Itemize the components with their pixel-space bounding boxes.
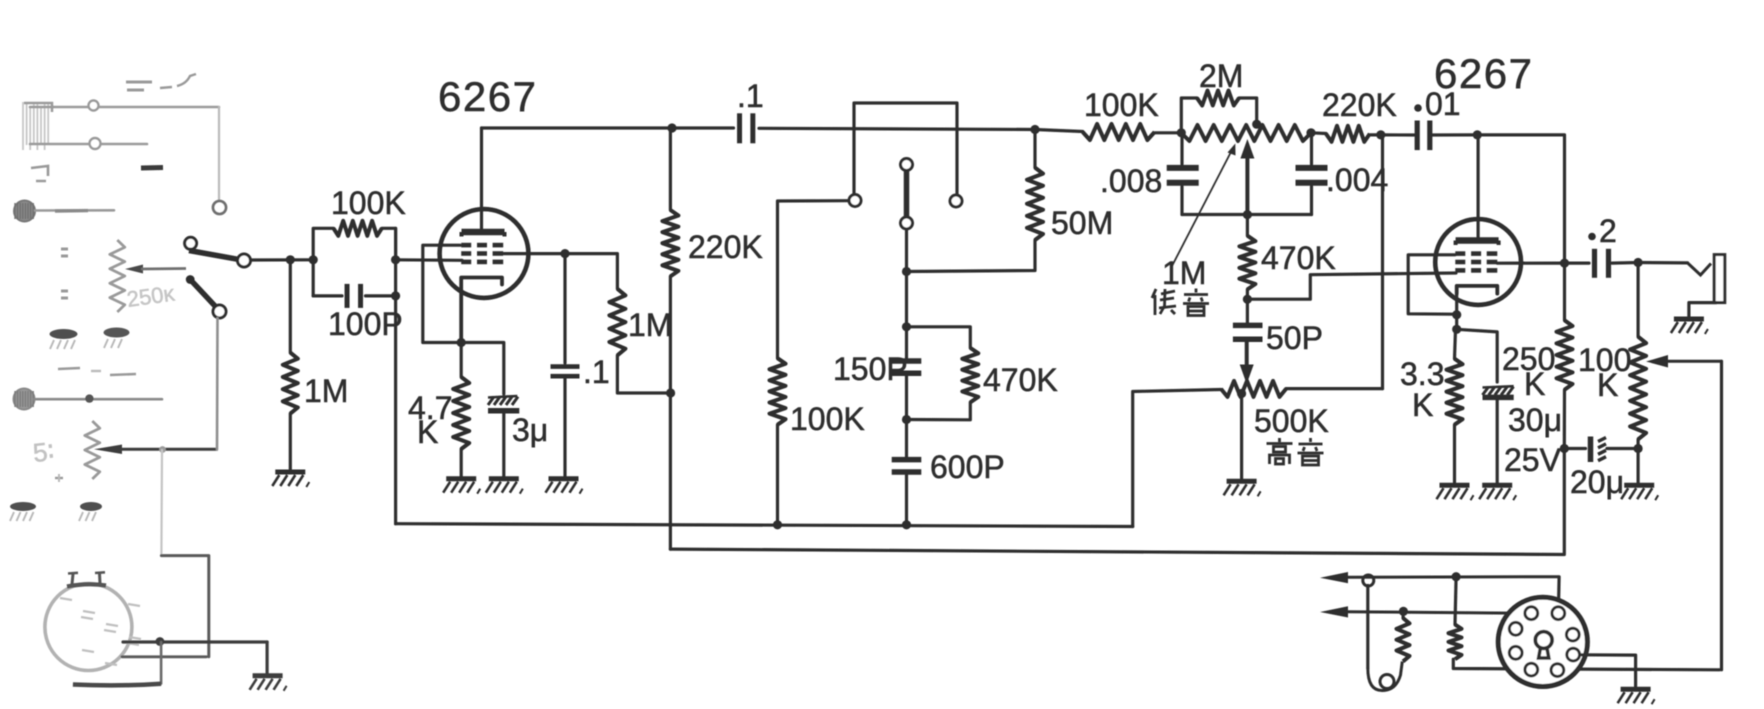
wire cathode to 3u cap — [461, 343, 504, 395]
label 4.7K K — [417, 414, 438, 450]
wire socket X1 line 1 — [123, 640, 267, 643]
label 25V — [1504, 442, 1562, 478]
node V2 cathode junction 2 — [1452, 325, 1461, 334]
wire 3.3K top — [1455, 329, 1456, 358]
wire 1M input top — [289, 260, 292, 353]
svg-text:470K: 470K — [983, 362, 1058, 398]
wire 500K right up to .01 node — [1381, 135, 1384, 389]
resistor 1M input — [283, 353, 298, 414]
wire 470K bass bottom — [1246, 289, 1249, 299]
node 470K bass bottom — [1243, 295, 1252, 304]
node 250K bottom 20u — [1560, 444, 1569, 453]
wire box bottom right — [366, 294, 396, 297]
wire .008 top — [1180, 133, 1183, 164]
wire bass bottom bracket — [1182, 213, 1312, 216]
label treble kanji — [1267, 438, 1324, 465]
wire 1M input bottom — [289, 414, 292, 470]
wire 600P top — [905, 420, 908, 458]
svg-text:30μ: 30μ — [1508, 402, 1562, 438]
svg-text:.008: .008 — [1100, 163, 1162, 199]
label 220K tone — [1322, 87, 1397, 123]
socket X1 bottom arc — [73, 684, 161, 686]
tube socket X1 prong 2 — [95, 572, 105, 583]
wire arrow1 to socket pin — [1557, 577, 1561, 607]
faded ground blob B — [104, 328, 130, 349]
bass pot wiper arrow — [1240, 139, 1254, 215]
ground 3.3K — [1437, 485, 1474, 500]
resistor heater R2 — [1449, 625, 1462, 660]
output pot wiper arrow — [1646, 355, 1722, 368]
node 500K ground tap — [1237, 389, 1246, 398]
svg-text:6267: 6267 — [438, 73, 537, 120]
node bass wiper bottom — [1243, 210, 1252, 219]
ground socket X1 — [250, 676, 287, 691]
faint colon mark 2 — [61, 291, 68, 298]
label .008 — [1100, 163, 1162, 199]
annotation arrow to bass wiper — [1172, 144, 1236, 267]
faded ground blob A — [50, 329, 78, 349]
wire parallel box left — [313, 228, 333, 296]
node 1M to 220K line — [666, 388, 675, 397]
resistor 100K input — [334, 221, 382, 236]
capacitor 150P — [892, 361, 922, 373]
label 4.7 — [408, 390, 452, 426]
wire 100K to right vertical — [382, 228, 396, 259]
ground output jack — [1671, 319, 1708, 334]
power socket body — [1498, 597, 1587, 686]
potentiometer 100K output track — [1630, 337, 1646, 440]
wire rail1 — [396, 524, 1133, 527]
label 50M — [1051, 205, 1113, 241]
svg-text:.1: .1 — [583, 354, 610, 390]
ground .1 bypass — [546, 479, 583, 494]
wire 470K parallel bottom — [907, 402, 971, 419]
potentiometer VR1 250K track (faded) — [110, 240, 125, 312]
power socket pin 6 — [1567, 648, 1580, 661]
label bass kanji — [1152, 289, 1209, 316]
wire 3u bottom — [502, 413, 505, 477]
label .2 — [1588, 213, 1617, 249]
wire 50M bottom — [907, 240, 1036, 272]
wire socket dot down — [160, 642, 163, 684]
wire 50P top — [1246, 299, 1249, 323]
switch S2 arm contact top — [901, 159, 913, 171]
faded marks above J1 — [126, 74, 196, 90]
VR2 wiper arrow — [94, 445, 218, 455]
wire 600P bottom — [905, 474, 908, 525]
label 250K K — [1524, 366, 1545, 402]
label .004 — [1326, 162, 1388, 198]
label 220K V1 — [688, 229, 763, 265]
faint plus mark — [55, 474, 63, 482]
tube V1 6267 — [440, 209, 529, 298]
treble wiper arrow — [1240, 341, 1254, 384]
label 100 out — [1578, 342, 1631, 378]
input jack J3 filled circle — [14, 389, 35, 410]
wire S2 left contact to 100K — [778, 201, 850, 359]
node 2M right on pot — [1252, 120, 1261, 129]
power socket pin 2 — [1552, 607, 1565, 620]
wire 20u left — [1564, 447, 1585, 450]
label 100K tone — [1084, 87, 1159, 123]
output jack body — [1714, 255, 1725, 303]
power socket pin 3 — [1509, 622, 1522, 635]
node V1 screen — [560, 249, 569, 258]
wire heater R2 bottom run — [1453, 659, 1719, 670]
wire .008 bottom — [1180, 187, 1183, 215]
wire tone out to 220K — [1311, 131, 1326, 135]
resistor 470K parallel — [962, 348, 978, 403]
wire from J3 — [34, 398, 162, 401]
capacitor 3u hatched plate — [488, 396, 518, 405]
power socket pin 7 — [1525, 663, 1538, 676]
potentiometer 1M bass track — [1181, 125, 1311, 141]
wire switch B to input node — [251, 258, 314, 261]
ground 100K pot — [1621, 485, 1658, 500]
power socket pin 8 — [1551, 664, 1564, 677]
label 3.3 — [1400, 356, 1444, 392]
wire .01 to V2 node — [1432, 133, 1477, 136]
resistor heater R1 — [1397, 618, 1410, 661]
wire arm junction down — [905, 272, 908, 327]
wire feedback vertical — [1720, 361, 1723, 670]
wire J1 top lead (faded) — [30, 106, 219, 109]
capacitor 3u solid plate — [488, 408, 519, 414]
svg-text:5∶: 5∶ — [31, 436, 55, 468]
tube V2 6267 — [1435, 219, 1521, 305]
label 1M input — [304, 373, 348, 409]
capacitor .004 — [1296, 168, 1328, 183]
label 150P — [833, 351, 908, 387]
label 500K — [1254, 403, 1329, 439]
wire V1 plate rail — [482, 126, 734, 129]
label 3.3K K — [1412, 387, 1433, 423]
resistor 100K mid — [770, 358, 786, 425]
wire V1 plate lead — [480, 128, 483, 230]
selector switch S1 pivot dot — [186, 275, 195, 284]
wire to jack hook — [1638, 261, 1687, 265]
faint colon mark 1 — [61, 249, 68, 256]
ground 1M input — [272, 472, 309, 487]
label 100K out K — [1597, 367, 1618, 403]
heater arrow 2 — [1320, 606, 1525, 617]
VR1 wiper arrow — [125, 265, 186, 274]
label .1 bypass — [583, 354, 610, 390]
capacitor 20u hatched plate — [1598, 438, 1606, 461]
tube socket X1 prong 1 — [68, 573, 78, 584]
svg-text:20μ: 20μ — [1570, 464, 1624, 500]
junction dot socket line 1 — [156, 637, 165, 646]
label 30u — [1508, 402, 1562, 438]
svg-text:K: K — [417, 414, 438, 450]
resistor 4.7K cathode — [453, 377, 469, 449]
faded hook mark — [31, 166, 48, 181]
wire socket line1 to ground — [266, 642, 269, 673]
capacitor 100P — [347, 284, 361, 308]
switch S2 contact circle left — [849, 195, 861, 207]
wire box right vertical down to rail1 — [394, 228, 397, 523]
wire 220K bottom to rail2 — [669, 276, 672, 549]
label .01 — [1414, 86, 1460, 122]
node 150P bottom — [902, 415, 911, 424]
node 150P top — [902, 322, 911, 331]
svg-text:K: K — [1412, 387, 1433, 423]
svg-text:2: 2 — [1599, 213, 1617, 249]
VR1 value label (faded) — [125, 280, 177, 312]
node input grid dot 2 — [309, 255, 318, 264]
switch contact circle top (faded) — [213, 201, 226, 214]
wire 220K top — [669, 128, 672, 210]
svg-text:100K: 100K — [331, 185, 406, 221]
wire J1 lower lead (faded) — [30, 143, 147, 146]
label 600P — [930, 449, 1005, 485]
resistor 3.3K cathode V2 — [1447, 359, 1463, 425]
wire S2 arm down — [905, 230, 908, 272]
switch S2 arm contact bottom — [901, 217, 913, 229]
node .01 left — [1376, 130, 1385, 139]
capacitor 50P — [1233, 325, 1263, 339]
wire 100K tone out — [1155, 131, 1182, 134]
capacitor 30u hatched plate — [1483, 386, 1514, 395]
capacitor 600P — [892, 460, 922, 472]
wire .1 screen bypass bottom — [563, 378, 566, 477]
wire S1 contact C down to VR2 wiper junction — [216, 318, 219, 449]
wire 150P top — [905, 327, 908, 358]
wire V2 cathode bracket — [1457, 286, 1498, 294]
connector circle on J1 wire (faded) — [89, 101, 99, 111]
svg-text:50P: 50P — [1266, 320, 1323, 356]
wire 150P bottom — [905, 375, 908, 420]
ground 3u — [486, 479, 523, 494]
wire box bottom left — [313, 294, 342, 297]
heater wire curl — [1368, 661, 1403, 690]
node 600P on rail1 — [902, 520, 911, 529]
power socket pin 4 — [1566, 628, 1579, 641]
svg-text:K: K — [1524, 366, 1545, 402]
resistor 100K tone — [1083, 124, 1155, 140]
wire 470K bass top — [1246, 215, 1249, 236]
node V2 plate top — [1473, 130, 1482, 139]
tube socket X1 top arc — [67, 584, 106, 586]
svg-text:600P: 600P — [930, 449, 1005, 485]
svg-text:.1: .1 — [737, 78, 764, 114]
wire step to socket — [161, 556, 208, 657]
wire V1 g3 tie — [423, 245, 460, 342]
node input grid dot 1 — [286, 255, 295, 264]
label 100K input — [331, 185, 406, 221]
resistor 470K bass — [1239, 236, 1255, 290]
capacitor .01 — [1417, 121, 1430, 151]
label tube V2 6267 — [1434, 50, 1533, 97]
svg-text:500K: 500K — [1254, 403, 1329, 439]
wire 250K bottom — [1563, 390, 1566, 449]
wire 50M top — [1033, 130, 1036, 168]
darker blotch on J2 wire — [55, 209, 88, 213]
wire plate node right — [1477, 135, 1564, 263]
capacitor 20u solid plate — [1588, 437, 1594, 463]
selector switch S1 arm 2 — [190, 280, 215, 307]
node 100K mid on rail1 — [773, 520, 782, 529]
wire socket X1 line 2 — [122, 655, 206, 658]
capacitor .2 output — [1595, 249, 1609, 278]
node output jack — [1634, 258, 1643, 267]
node 50M bottom junction — [902, 267, 911, 276]
wire V2 plate lead — [1476, 135, 1479, 240]
junction dot on J3 wire — [85, 394, 93, 402]
svg-text:1M: 1M — [1162, 255, 1206, 291]
wire 500K tap to ground — [1240, 394, 1243, 480]
wire 1M screen bottom — [617, 355, 670, 393]
wire .1 screen bypass top — [563, 254, 566, 363]
input jack J1 (faded) — [23, 102, 52, 150]
wire grid feed to tube V1 — [396, 258, 462, 262]
wire cathode junctions — [1455, 315, 1458, 330]
wire grid step to V2 — [1247, 273, 1456, 299]
label 100P — [328, 306, 403, 342]
output jack hook contact — [1688, 263, 1712, 275]
wire 250K top — [1563, 263, 1566, 320]
power socket pin 1 — [1525, 607, 1538, 620]
wire J1 vertical drop (faded) — [218, 107, 220, 200]
svg-text:220K: 220K — [688, 229, 763, 265]
wire 500K right — [1286, 387, 1383, 390]
node 100K pot 20u — [1634, 444, 1643, 453]
selector switch S1 contact circle B — [238, 254, 251, 267]
capacitor .1 coupling — [740, 113, 753, 143]
capacitor .1 screen bypass — [551, 367, 580, 377]
power socket keyway — [1535, 632, 1552, 658]
wire loop knot — [1363, 575, 1374, 586]
resistor 220K plate load V1 — [662, 210, 678, 276]
ground 30u — [1479, 485, 1516, 500]
faded small ground C — [10, 502, 36, 521]
wire 100K mid bottom — [776, 425, 779, 525]
wire twisted heater drop — [1366, 586, 1369, 669]
resistor 220K tone out — [1326, 126, 1370, 142]
switch S2 arm blade — [904, 172, 910, 217]
svg-text:25V: 25V — [1504, 442, 1562, 478]
wire 4.7K top — [460, 343, 463, 378]
label 100K mid — [790, 401, 865, 437]
svg-text:6267: 6267 — [1434, 50, 1533, 97]
svg-text:100K: 100K — [1084, 87, 1159, 123]
svg-text:220K: 220K — [1322, 87, 1397, 123]
wire V2 grid g3 tie — [1408, 255, 1455, 314]
svg-text:50M: 50M — [1051, 205, 1113, 241]
faded dashes row — [58, 368, 136, 375]
svg-text:3μ: 3μ — [512, 412, 548, 448]
wire .2 to out node — [1612, 261, 1638, 265]
capacitor .008 — [1167, 168, 1199, 183]
label 3u — [512, 412, 548, 448]
node heater R1 tap — [1399, 607, 1408, 616]
wire socket pin6 to ground — [1581, 655, 1636, 687]
potentiometer VR2 track (faded) — [85, 421, 100, 479]
wire plate rail to switch region — [759, 128, 1035, 129]
faded label near VR2 — [31, 436, 55, 468]
wire heater R1 top — [1401, 611, 1405, 618]
wire 4.7K bottom — [460, 449, 463, 477]
wire VR2 wiper drop (faint) — [160, 450, 163, 556]
wire 470K parallel top — [907, 327, 971, 348]
wire screen to 1M feed — [565, 254, 617, 289]
svg-text:100K: 100K — [790, 401, 865, 437]
selector switch S1 arm 1 — [189, 251, 238, 260]
label 20u — [1570, 464, 1624, 500]
wire 3.3K bottom — [1453, 425, 1456, 483]
wire cathode to 30u — [1457, 329, 1498, 382]
svg-text:.004: .004 — [1326, 162, 1388, 198]
wire 2M right — [1239, 98, 1257, 124]
wire V2 out to .2 — [1565, 262, 1590, 265]
wire 220K to .01 node — [1370, 133, 1381, 136]
ground 4.7K — [443, 479, 480, 494]
wire from J2 (faded) — [35, 209, 114, 212]
wire heater R2 top — [1455, 577, 1456, 625]
svg-text:1M: 1M — [628, 307, 672, 343]
wire 30u bottom — [1496, 400, 1499, 483]
ground 500K — [1224, 481, 1261, 496]
wire 500K left to rail1 — [1133, 390, 1221, 527]
svg-text:2M: 2M — [1199, 58, 1243, 94]
capacitor 30u solid plate — [1483, 395, 1514, 401]
svg-text:100P: 100P — [328, 306, 403, 342]
label 1M screen — [628, 307, 672, 343]
label tube V1 6267 — [438, 73, 537, 120]
svg-text:1M: 1M — [304, 373, 348, 409]
wire 20u right — [1607, 447, 1638, 450]
node plate rail 220K tap — [667, 123, 676, 132]
node rail 50M top — [1030, 125, 1039, 134]
selector switch S1 contact circle A — [185, 237, 197, 249]
label 2M — [1199, 58, 1243, 94]
node heater R2 tap — [1452, 572, 1461, 581]
label 1M bass — [1162, 255, 1206, 291]
label 470K parallel — [983, 362, 1058, 398]
label 250K 250 — [1502, 341, 1555, 377]
tube socket X1 (faded) body — [45, 584, 141, 671]
label 470K bass — [1261, 240, 1336, 276]
junction dot VR2 wiper line — [159, 446, 166, 453]
wire jack sleeve to ground — [1689, 303, 1716, 317]
wire V2 screen out — [1498, 262, 1565, 265]
resistor 2M — [1197, 91, 1239, 106]
wire 100K pot bottom — [1636, 439, 1639, 448]
node bass pot right — [1306, 128, 1315, 137]
node box right bottom — [391, 291, 400, 300]
svg-text:470K: 470K — [1261, 240, 1336, 276]
wire V2 cathode lead — [1455, 286, 1458, 315]
heater arrow 1 — [1320, 572, 1559, 583]
ground power socket — [1618, 689, 1655, 704]
potentiometer 500K treble track — [1221, 381, 1286, 397]
power socket pin 5 — [1509, 646, 1522, 659]
wire 100K pot to ground — [1636, 449, 1639, 484]
wire V1 cathode bracket — [461, 278, 502, 343]
wire out node down — [1636, 263, 1639, 337]
wire switch bracket — [854, 103, 957, 195]
svg-text:K: K — [1597, 367, 1618, 403]
node bass pot left — [1177, 128, 1186, 137]
wire rail to 100K tone — [1035, 130, 1083, 132]
label .1 coupling — [737, 78, 764, 114]
resistor 50M — [1027, 168, 1043, 240]
faded small ground D — [79, 502, 102, 521]
label 50P — [1266, 320, 1323, 356]
switch S2 contact circle right — [950, 195, 962, 207]
svg-text:150P: 150P — [833, 351, 908, 387]
node V2 output — [1560, 259, 1569, 268]
